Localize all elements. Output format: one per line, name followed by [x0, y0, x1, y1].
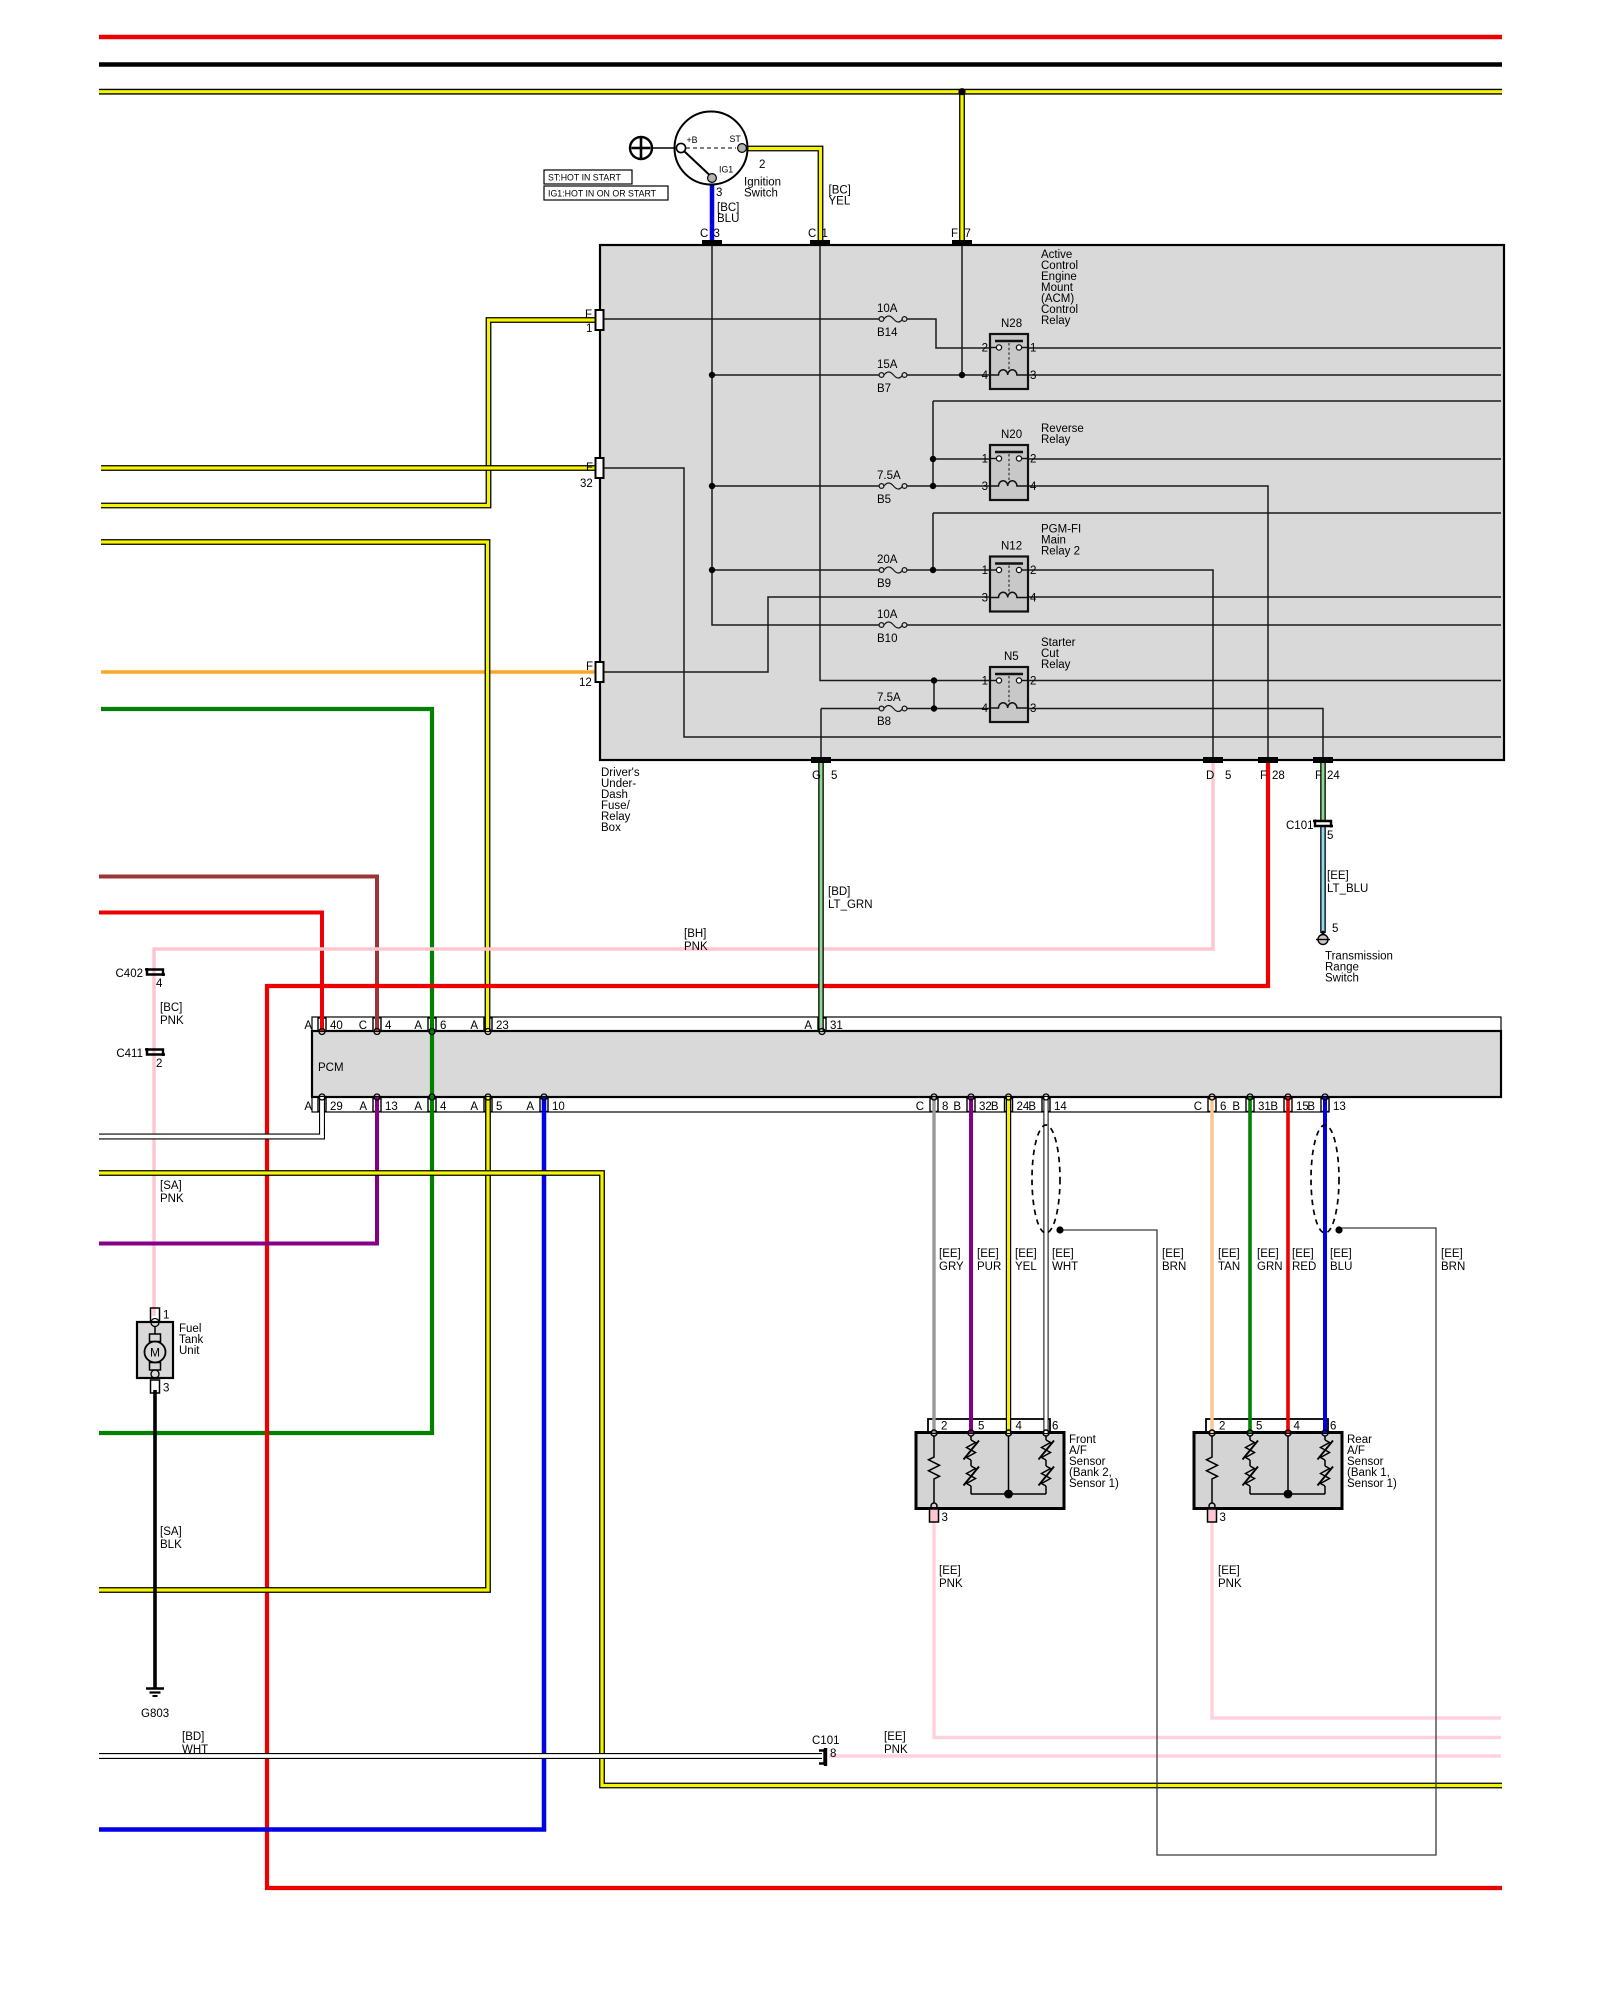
svg-text:31: 31 [830, 1020, 843, 1032]
svg-text:3: 3 [1220, 1512, 1226, 1524]
svg-text:YEL: YEL [1015, 1261, 1037, 1273]
svg-text:A: A [414, 1020, 422, 1032]
svg-text:[EE]: [EE] [1327, 870, 1349, 882]
svg-text:[SA]: [SA] [160, 1526, 182, 1538]
svg-text:6: 6 [1052, 1421, 1058, 1433]
svg-text:B5: B5 [877, 494, 891, 506]
svg-text:12: 12 [579, 677, 592, 689]
svg-text:4: 4 [1030, 481, 1037, 493]
svg-text:5: 5 [1256, 1421, 1262, 1433]
svg-text:F: F [951, 228, 958, 240]
svg-text:6: 6 [1220, 1101, 1226, 1113]
svg-text:Relay: Relay [1041, 434, 1071, 446]
svg-text:C101: C101 [812, 1735, 840, 1747]
svg-text:4: 4 [385, 1020, 392, 1032]
svg-text:8: 8 [942, 1101, 948, 1113]
svg-text:3: 3 [714, 228, 720, 240]
svg-text:13: 13 [1333, 1101, 1346, 1113]
svg-text:PUR: PUR [977, 1261, 1001, 1273]
svg-text:A: A [304, 1020, 312, 1032]
svg-text:5: 5 [831, 770, 837, 782]
svg-text:C: C [359, 1020, 367, 1032]
svg-text:2: 2 [982, 343, 988, 355]
svg-text:N12: N12 [1001, 541, 1022, 553]
svg-text:F: F [586, 462, 593, 474]
svg-text:1: 1 [982, 565, 988, 577]
svg-text:B: B [953, 1101, 961, 1113]
svg-text:N20: N20 [1001, 429, 1022, 441]
svg-text:[BC]: [BC] [160, 1002, 182, 1014]
svg-text:13: 13 [385, 1101, 398, 1113]
svg-text:[BH]: [BH] [684, 928, 706, 940]
svg-text:1: 1 [982, 454, 988, 466]
svg-text:24: 24 [1327, 770, 1340, 782]
svg-text:ST:HOT IN START: ST:HOT IN START [548, 173, 621, 183]
svg-text:B9: B9 [877, 578, 891, 590]
svg-text:C: C [916, 1101, 924, 1113]
svg-text:A: A [470, 1101, 478, 1113]
svg-text:A: A [414, 1101, 422, 1113]
svg-text:2: 2 [1030, 454, 1036, 466]
svg-text:C: C [808, 228, 816, 240]
svg-text:2: 2 [1219, 1421, 1225, 1433]
svg-text:BRN: BRN [1441, 1261, 1465, 1273]
svg-text:[EE]: [EE] [1441, 1248, 1463, 1260]
svg-text:Sensor 1): Sensor 1) [1069, 1478, 1119, 1490]
svg-text:A: A [470, 1020, 478, 1032]
svg-text:4: 4 [1016, 1421, 1023, 1433]
svg-text:29: 29 [330, 1101, 343, 1113]
svg-text:Relay: Relay [1041, 659, 1071, 671]
svg-text:4: 4 [1294, 1421, 1301, 1433]
svg-text:14: 14 [1054, 1101, 1067, 1113]
svg-text:10A: 10A [877, 609, 898, 621]
svg-text:7.5A: 7.5A [877, 470, 901, 482]
svg-text:1: 1 [163, 1310, 169, 1322]
svg-text:Sensor 1): Sensor 1) [1347, 1478, 1397, 1490]
svg-text:[EE]: [EE] [939, 1565, 961, 1577]
svg-text:15: 15 [1296, 1101, 1309, 1113]
svg-text:PNK: PNK [160, 1015, 184, 1027]
svg-text:F: F [585, 309, 592, 321]
svg-text:TAN: TAN [1218, 1261, 1240, 1273]
svg-text:[BD]: [BD] [182, 1731, 204, 1743]
svg-text:[EE]: [EE] [1052, 1248, 1074, 1260]
svg-text:4: 4 [156, 978, 163, 990]
svg-text:B: B [991, 1101, 999, 1113]
svg-text:2: 2 [1030, 565, 1036, 577]
svg-text:PNK: PNK [160, 1193, 184, 1205]
svg-text:BLU: BLU [717, 213, 739, 225]
svg-text:6: 6 [1330, 1421, 1336, 1433]
svg-text:[EE]: [EE] [1015, 1248, 1037, 1260]
svg-text:5: 5 [1332, 923, 1338, 935]
svg-text:N28: N28 [1001, 318, 1022, 330]
svg-text:B10: B10 [877, 633, 897, 645]
svg-text:B14: B14 [877, 327, 898, 339]
svg-text:G: G [812, 770, 821, 782]
svg-text:5: 5 [978, 1421, 984, 1433]
svg-text:B8: B8 [877, 716, 891, 728]
svg-text:[EE]: [EE] [1218, 1565, 1240, 1577]
svg-text:YEL: YEL [829, 196, 851, 208]
svg-text:F: F [1260, 770, 1267, 782]
svg-text:2: 2 [156, 1058, 162, 1070]
svg-text:4: 4 [982, 370, 989, 382]
svg-text:PNK: PNK [939, 1578, 963, 1590]
svg-text:7: 7 [965, 228, 971, 240]
svg-text:A: A [359, 1101, 367, 1113]
svg-text:3: 3 [982, 481, 988, 493]
svg-text:4: 4 [982, 703, 989, 715]
svg-text:5: 5 [1327, 830, 1333, 842]
svg-text:1: 1 [982, 676, 988, 688]
svg-text:BRN: BRN [1162, 1261, 1186, 1273]
svg-text:B7: B7 [877, 383, 891, 395]
svg-text:C101: C101 [1286, 820, 1314, 832]
svg-text:32: 32 [580, 478, 593, 490]
svg-text:PNK: PNK [884, 1744, 908, 1756]
svg-text:3: 3 [1030, 370, 1036, 382]
svg-text:1: 1 [822, 228, 828, 240]
svg-text:PCM: PCM [318, 1062, 344, 1074]
svg-text:GRN: GRN [1257, 1261, 1283, 1273]
svg-text:M: M [150, 1346, 160, 1360]
svg-text:[SA]: [SA] [160, 1180, 182, 1192]
svg-text:10: 10 [552, 1101, 565, 1113]
svg-text:24: 24 [1017, 1101, 1030, 1113]
svg-text:Switch: Switch [1325, 973, 1359, 985]
svg-text:1: 1 [1030, 343, 1036, 355]
svg-text:2: 2 [1030, 676, 1036, 688]
svg-text:[EE]: [EE] [1257, 1248, 1279, 1260]
svg-text:WHT: WHT [1052, 1261, 1078, 1273]
svg-text:[EE]: [EE] [1218, 1248, 1240, 1260]
svg-text:Switch: Switch [744, 188, 778, 200]
svg-text:+B: +B [687, 135, 698, 145]
svg-text:3: 3 [716, 187, 722, 199]
svg-text:5: 5 [1225, 770, 1231, 782]
svg-text:C: C [1194, 1101, 1202, 1113]
svg-text:[EE]: [EE] [884, 1731, 906, 1743]
svg-text:F: F [1315, 770, 1322, 782]
svg-text:3: 3 [942, 1512, 948, 1524]
svg-text:IG1:HOT IN ON OR START: IG1:HOT IN ON OR START [548, 189, 657, 199]
svg-text:28: 28 [1272, 770, 1285, 782]
svg-text:[BD]: [BD] [828, 886, 850, 898]
svg-text:WHT: WHT [182, 1744, 208, 1756]
svg-text:PNK: PNK [684, 941, 708, 953]
svg-text:2: 2 [759, 159, 765, 171]
svg-text:Box: Box [601, 822, 621, 834]
svg-text:3: 3 [982, 593, 988, 605]
svg-text:4: 4 [1030, 593, 1037, 605]
svg-text:4: 4 [440, 1101, 447, 1113]
svg-text:B: B [1028, 1101, 1036, 1113]
svg-text:[EE]: [EE] [939, 1248, 961, 1260]
svg-text:6: 6 [440, 1020, 446, 1032]
svg-text:40: 40 [330, 1020, 343, 1032]
svg-text:B: B [1270, 1101, 1278, 1113]
svg-text:Relay: Relay [1041, 315, 1071, 327]
svg-text:20A: 20A [877, 554, 898, 566]
svg-text:LT_BLU: LT_BLU [1327, 883, 1368, 895]
svg-text:2: 2 [941, 1421, 947, 1433]
svg-text:5: 5 [496, 1101, 502, 1113]
svg-text:[EE]: [EE] [1162, 1248, 1184, 1260]
svg-text:IG1: IG1 [719, 165, 733, 175]
svg-text:[EE]: [EE] [977, 1248, 999, 1260]
svg-text:ST: ST [730, 134, 742, 144]
svg-text:3: 3 [1030, 703, 1036, 715]
svg-text:Unit: Unit [179, 1345, 200, 1357]
svg-text:23: 23 [496, 1020, 509, 1032]
svg-text:[EE]: [EE] [1292, 1248, 1314, 1260]
svg-text:N5: N5 [1004, 651, 1019, 663]
svg-text:LT_GRN: LT_GRN [828, 899, 873, 911]
svg-text:32: 32 [979, 1101, 992, 1113]
svg-text:31: 31 [1258, 1101, 1271, 1113]
svg-text:BLU: BLU [1330, 1261, 1352, 1273]
svg-text:8: 8 [830, 1748, 836, 1760]
svg-text:A: A [804, 1020, 812, 1032]
svg-text:10A: 10A [877, 303, 898, 315]
svg-text:Relay 2: Relay 2 [1041, 546, 1080, 558]
svg-text:C411: C411 [116, 1048, 143, 1060]
svg-text:3: 3 [163, 1383, 169, 1395]
svg-text:GRY: GRY [939, 1261, 964, 1273]
svg-text:C402: C402 [116, 968, 144, 980]
svg-text:B: B [1232, 1101, 1240, 1113]
svg-text:D: D [1206, 770, 1214, 782]
svg-text:PNK: PNK [1218, 1578, 1242, 1590]
svg-text:BLK: BLK [160, 1539, 182, 1551]
svg-text:[EE]: [EE] [1330, 1248, 1352, 1260]
svg-text:C: C [700, 228, 708, 240]
svg-text:A: A [304, 1101, 312, 1113]
svg-text:1: 1 [586, 323, 592, 335]
svg-text:G803: G803 [141, 1708, 169, 1720]
svg-text:RED: RED [1292, 1261, 1316, 1273]
svg-text:F: F [586, 661, 593, 673]
svg-text:7.5A: 7.5A [877, 692, 901, 704]
svg-text:A: A [526, 1101, 534, 1113]
svg-text:15A: 15A [877, 359, 898, 371]
